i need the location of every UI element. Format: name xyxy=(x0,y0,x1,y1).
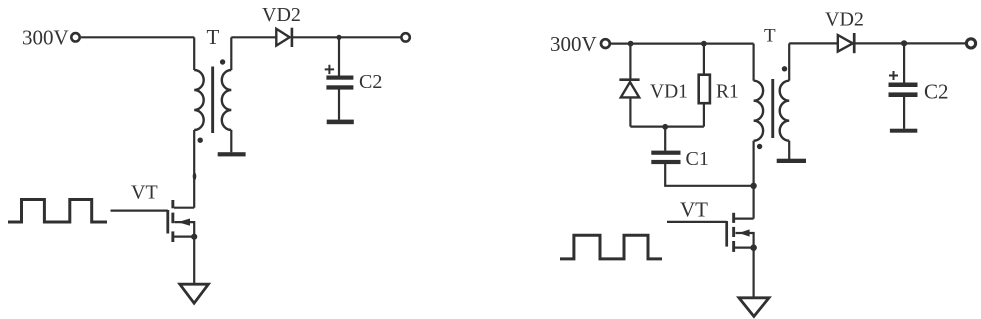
svg-text:300V: 300V xyxy=(550,32,597,56)
phase dot primary (left) xyxy=(198,138,203,143)
junction dot source-body (right) xyxy=(750,244,757,251)
svg-text:VT: VT xyxy=(680,198,708,222)
MOSFET VT body arrow (left) xyxy=(175,222,195,237)
wire primary top stub (left) xyxy=(193,37,195,70)
junction dot at C2 tap (left) xyxy=(336,35,341,40)
wire junction to output terminal (left) xyxy=(339,36,401,38)
plus polarity mark C2 (left) xyxy=(325,65,334,74)
wire secondary bottom (right) xyxy=(788,141,790,159)
transformer T primary winding (left) xyxy=(194,70,204,130)
svg-text:T: T xyxy=(207,25,220,49)
svg-text:C2: C2 xyxy=(359,71,382,93)
output terminal (right) xyxy=(966,39,975,48)
svg-text:T: T xyxy=(764,26,776,47)
MOSFET VT source lead (left) xyxy=(174,236,194,238)
ground triangle (left) xyxy=(180,284,209,303)
wire junction to output terminal (right) xyxy=(904,42,966,44)
wire gate lead (right) xyxy=(667,221,727,223)
ground bar under C2 (left) xyxy=(327,120,354,125)
svg-text:VD2: VD2 xyxy=(825,9,864,31)
wire primary bottom to MOSFET drain (right) xyxy=(752,141,754,219)
svg-text:C2: C2 xyxy=(924,80,949,104)
ground bar under secondary (right) xyxy=(777,159,806,163)
wire gate lead (left) xyxy=(111,210,168,212)
junction dot VD1 branch (right) xyxy=(628,41,634,47)
transformer T secondary winding (left) xyxy=(222,70,232,130)
junction dot R1 branch (right) xyxy=(701,41,707,47)
junction dot C2 tap (right) xyxy=(901,40,907,46)
wire secondary bottom (left) xyxy=(230,130,232,152)
MOSFET VT body arrow (right) xyxy=(736,233,754,248)
wire junction down to C2 (left) xyxy=(338,37,340,75)
junction dot C1 tap (right) xyxy=(662,124,668,130)
capacitor C2 plates (right) xyxy=(889,83,918,88)
capacitor C2 plates (left) xyxy=(326,76,353,80)
phase dot primary (right) xyxy=(757,144,762,149)
wire diode to junction (left) xyxy=(292,36,339,38)
MOSFET VT channel segments (left) xyxy=(171,200,174,208)
capacitor C1 plates (right) xyxy=(651,151,680,155)
junction dot snubber to primary (right) xyxy=(750,183,756,189)
wire primary top stub (right) xyxy=(752,44,754,81)
square-wave drive source (right) xyxy=(560,235,662,259)
wire VD1-R1 bottom rail (right) xyxy=(630,125,704,127)
input terminal (right circuit) xyxy=(601,39,610,48)
wire R1 bottom (right) xyxy=(703,103,705,126)
transformer T primary winding (right) xyxy=(754,81,764,141)
wire to resistor R1 (right) xyxy=(703,44,705,75)
MOSFET VT channel segments (right) xyxy=(732,213,735,223)
diode VD2 (right) xyxy=(838,35,853,52)
wire secondary top stub (right) xyxy=(788,43,790,80)
wire input rail (right) xyxy=(611,42,754,44)
wire source to ground (right) xyxy=(752,248,754,298)
MOSFET VT gate bar (right) xyxy=(725,221,728,247)
resistor R1 (right) xyxy=(699,75,710,104)
phase dot secondary (left) xyxy=(220,59,225,64)
ground triangle (right) xyxy=(739,298,769,317)
ink blot on drain wire (left) xyxy=(193,173,197,181)
input terminal (left circuit) xyxy=(71,33,79,41)
plus polarity mark C2 (right) xyxy=(889,71,898,80)
wire to diode VD1 (right) xyxy=(629,44,631,79)
wire C1 bottom to primary (right) xyxy=(665,164,753,186)
MOSFET VT drain lead (left) xyxy=(174,207,194,209)
MOSFET VT source lead (right) xyxy=(735,247,754,249)
wire junction down to C2 (right) xyxy=(903,43,905,82)
svg-text:VT: VT xyxy=(131,182,158,204)
MOSFET VT gate bar (left) xyxy=(166,210,169,234)
wire secondary to diode VD2 (right) xyxy=(789,42,838,44)
wire down to C1 (right) xyxy=(664,127,666,151)
svg-text:VD1: VD1 xyxy=(650,82,688,103)
wire source to ground (left) xyxy=(193,237,195,285)
wire VD1 anode down (right) xyxy=(629,97,631,126)
wire C2 bottom (right) xyxy=(903,97,905,129)
square-wave drive source (left) xyxy=(8,200,107,223)
diode VD2 (left) xyxy=(276,29,289,46)
transformer T core (left) xyxy=(211,67,214,134)
svg-text:300V: 300V xyxy=(22,26,69,50)
transformer T secondary winding (right) xyxy=(780,81,790,141)
wire primary bottom to MOSFET drain (left) xyxy=(193,130,195,208)
wire C2 bottom (left) xyxy=(338,90,340,120)
junction dot source-body (left) xyxy=(191,234,197,240)
diode VD1 (right) xyxy=(619,78,639,81)
svg-text:VD2: VD2 xyxy=(262,4,301,26)
ground bar under secondary (left) xyxy=(218,152,246,156)
svg-text:C1: C1 xyxy=(686,148,709,170)
wire input to transformer primary top (left) xyxy=(81,36,194,38)
wire secondary top stub (left) xyxy=(230,37,232,70)
transformer T core (right) xyxy=(771,79,774,138)
MOSFET VT drain lead (right) xyxy=(735,218,754,220)
ground bar under C2 (right) xyxy=(890,129,917,133)
wire diode to junction (right) xyxy=(854,42,904,44)
output terminal (left) xyxy=(401,33,409,41)
wire secondary to diode VD2 (left) xyxy=(231,36,276,38)
phase dot secondary (right) xyxy=(782,66,787,71)
svg-text:R1: R1 xyxy=(716,82,739,103)
